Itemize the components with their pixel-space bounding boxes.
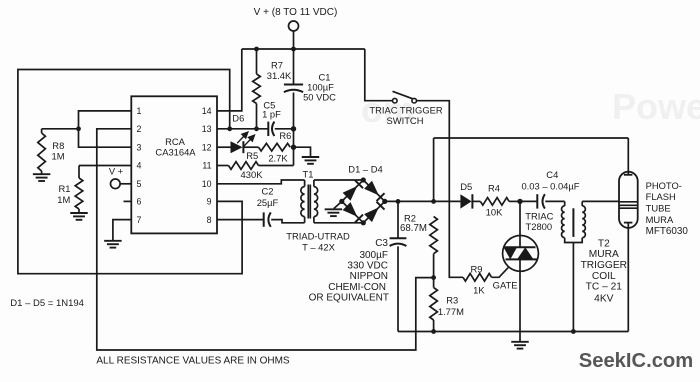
- wire bridge to triac row: [385, 200, 461, 202]
- node bridge right: [382, 199, 387, 204]
- resistor 430K: [229, 162, 259, 170]
- ground R1: [70, 212, 88, 214]
- wire pin8: [217, 219, 264, 221]
- svg-text:R3: R3: [446, 294, 458, 305]
- wire pin7: [113, 220, 131, 241]
- svg-text:11: 11: [202, 161, 211, 171]
- resistor R3: [433, 278, 435, 288]
- node bridge bottom: [361, 220, 366, 225]
- node bus-C1: [291, 47, 296, 52]
- svg-text:D5: D5: [460, 181, 472, 192]
- wire pin2 long loop: [97, 129, 434, 350]
- svg-text:D1 – D5 = 1N194: D1 – D5 = 1N194: [10, 298, 84, 309]
- diode D1: [343, 186, 358, 201]
- resistor R4: [480, 198, 509, 206]
- svg-text:R4: R4: [488, 183, 500, 194]
- bridge frame D1-D4: [342, 180, 385, 223]
- svg-text:R8: R8: [52, 140, 64, 151]
- svg-text:R1: R1: [59, 183, 71, 194]
- svg-text:TRIAC: TRIAC: [525, 211, 553, 222]
- svg-text:TRIAD-UTRAD: TRIAD-UTRAD: [286, 231, 350, 242]
- svg-text:13: 13: [202, 124, 212, 134]
- wire gate: [492, 268, 509, 278]
- svg-text:300µF: 300µF: [359, 250, 388, 261]
- svg-text:R9: R9: [471, 264, 483, 275]
- svg-text:T – 42X: T – 42X: [302, 241, 335, 252]
- svg-text:10: 10: [202, 179, 212, 189]
- node rail-R3: [431, 329, 436, 334]
- wire pin11: [217, 165, 229, 167]
- wire pin13 riser: [18, 70, 242, 274]
- svg-text:8: 8: [207, 215, 212, 225]
- node R2-R3: [431, 275, 436, 280]
- op-amp U1 RCA CA3164A: [131, 96, 217, 233]
- svg-text:50 VDC: 50 VDC: [303, 92, 336, 103]
- resistor R8: [41, 129, 43, 133]
- svg-text:1K: 1K: [473, 284, 485, 295]
- wire R2 riser: [433, 138, 435, 201]
- resistor R5: [259, 143, 291, 151]
- svg-text:7: 7: [137, 215, 142, 225]
- wire anode rail: [434, 137, 629, 139]
- terminal V+ pin5: [111, 179, 121, 189]
- resistor R2: [430, 217, 438, 254]
- ground R5: [302, 156, 320, 158]
- wire supply bus: [242, 48, 365, 50]
- wire R4 to triac node: [509, 200, 520, 202]
- transformer T2 secondary: [581, 201, 583, 206]
- svg-text:R7: R7: [271, 60, 283, 71]
- node pin13 riser: [227, 126, 232, 131]
- node R5 right: [291, 145, 296, 150]
- svg-text:25µF: 25µF: [257, 197, 279, 208]
- wire pin1: [79, 111, 132, 147]
- transformer T1 primary: [304, 180, 306, 187]
- ground triac: [511, 341, 529, 343]
- svg-text:2: 2: [137, 124, 142, 134]
- svg-text:430K: 430K: [241, 169, 264, 180]
- svg-text:R6: R6: [279, 130, 291, 141]
- svg-text:4KV: 4KV: [594, 294, 613, 305]
- wire switch to gate drop: [416, 101, 463, 278]
- capacitor C1: [293, 49, 295, 85]
- node bridge top: [361, 177, 366, 182]
- ground R8: [33, 173, 51, 175]
- transformer T1 secondary: [313, 180, 315, 187]
- wire pin4: [79, 165, 131, 167]
- node bridge left: [339, 199, 344, 204]
- transformer T1 core: [307, 185, 309, 219]
- svg-text:T1: T1: [303, 168, 314, 179]
- svg-text:MURA: MURA: [589, 249, 619, 260]
- svg-text:9: 9: [207, 197, 212, 207]
- wire C1-R5 link: [293, 129, 295, 166]
- wire pin10: [217, 180, 305, 184]
- svg-text:C2: C2: [262, 186, 274, 197]
- svg-text:0.03 – 0.04µF: 0.03 – 0.04µF: [521, 180, 579, 191]
- transformer T2 primary: [564, 201, 566, 206]
- svg-text:6: 6: [137, 197, 142, 207]
- capacitor C3: [397, 201, 399, 238]
- wire bus to switch: [365, 49, 393, 101]
- svg-text:R5: R5: [246, 150, 258, 161]
- node C3 top: [396, 199, 401, 204]
- node pin1-R8: [76, 126, 81, 131]
- svg-text:R2: R2: [404, 212, 416, 223]
- svg-text:SeekIC.com: SeekIC.com: [579, 350, 693, 372]
- svg-text:RCA: RCA: [165, 136, 186, 147]
- diode D2: [364, 181, 379, 196]
- capacitor C4: [520, 200, 537, 202]
- svg-text:1M: 1M: [57, 194, 70, 205]
- svg-text:10K: 10K: [486, 206, 503, 217]
- svg-text:1.77M: 1.77M: [438, 306, 464, 317]
- svg-text:1 pF: 1 pF: [262, 109, 281, 120]
- svg-text:CHEMI-CON: CHEMI-CON: [328, 282, 386, 293]
- svg-text:CA3164A: CA3164A: [155, 147, 196, 158]
- wire bridge left to ground: [334, 201, 342, 208]
- svg-text:330 VDC: 330 VDC: [347, 261, 388, 272]
- triac trigger switch: [393, 98, 398, 103]
- wire V+ terminal to bus: [293, 31, 295, 49]
- transformer T2 core: [572, 208, 574, 237]
- capacitor C5: [267, 122, 269, 136]
- svg-text:68.7M: 68.7M: [400, 223, 427, 234]
- wire R5 to ground: [294, 147, 311, 157]
- svg-text:1M: 1M: [51, 151, 64, 162]
- svg-text:14: 14: [202, 106, 212, 116]
- wire pin12: [217, 146, 231, 148]
- triac T2800: [503, 236, 539, 272]
- wire T2 to tube trigger: [582, 200, 619, 202]
- node R2 top: [431, 199, 436, 204]
- photoflash tube V1: [619, 172, 638, 228]
- svg-text:D1 – D4: D1 – D4: [348, 164, 382, 175]
- wire T1 to bridge bottom: [314, 222, 363, 224]
- node rail-T2: [571, 329, 576, 334]
- diode D6: [231, 141, 243, 153]
- svg-text:5: 5: [137, 179, 142, 189]
- wire R8 tee: [42, 128, 79, 130]
- svg-text:4: 4: [137, 161, 142, 171]
- svg-text:D6: D6: [232, 112, 244, 123]
- svg-text:2.7K: 2.7K: [268, 152, 288, 163]
- svg-text:TRIAC TRIGGER: TRIAC TRIGGER: [369, 105, 442, 116]
- svg-text:C4: C4: [546, 169, 558, 180]
- svg-text:OR EQUIVALENT: OR EQUIVALENT: [309, 293, 389, 304]
- svg-text:MFT6030: MFT6030: [646, 226, 689, 237]
- svg-text:V + (8 TO 11 VDC): V + (8 TO 11 VDC): [254, 7, 338, 18]
- svg-text:SWITCH: SWITCH: [387, 115, 424, 126]
- svg-text:Powe: Powe: [612, 86, 700, 127]
- svg-text:V +: V +: [109, 165, 124, 176]
- svg-text:3: 3: [137, 142, 142, 152]
- svg-text:T2: T2: [598, 238, 610, 249]
- diode D3: [343, 202, 358, 217]
- node R7 bottom: [254, 126, 259, 131]
- resistor R7: [256, 49, 258, 74]
- node bus-R7: [254, 47, 259, 52]
- node triac top: [517, 199, 522, 204]
- arrows D6: [237, 132, 254, 146]
- svg-text:NIPPON: NIPPON: [350, 271, 388, 282]
- resistor R9: [463, 274, 492, 282]
- V+ supply terminal: [289, 21, 299, 31]
- svg-text:MURA: MURA: [646, 214, 674, 225]
- svg-text:FLASH: FLASH: [646, 191, 676, 202]
- svg-text:TUBE: TUBE: [646, 203, 671, 214]
- ground bridge: [325, 208, 343, 210]
- svg-text:1: 1: [137, 106, 142, 116]
- wire pin14 to bus: [217, 49, 242, 111]
- diode D4: [364, 207, 379, 222]
- svg-text:12: 12: [202, 142, 212, 152]
- ground pin7: [104, 240, 122, 242]
- diode D5: [460, 194, 471, 208]
- svg-text:31.4K: 31.4K: [267, 70, 292, 81]
- node C5 right: [291, 126, 296, 131]
- svg-text:GATE: GATE: [493, 280, 518, 291]
- svg-text:C3: C3: [375, 238, 388, 249]
- svg-text:T2800: T2800: [526, 221, 553, 232]
- svg-text:TC – 21: TC – 21: [586, 282, 623, 293]
- svg-text:PHOTO-: PHOTO-: [646, 180, 682, 191]
- wire ground rail: [398, 331, 628, 333]
- wire 430K to link: [259, 165, 294, 167]
- wire T1 to bridge top: [314, 179, 363, 181]
- svg-text:ALL RESISTANCE VALUES ARE IN O: ALL RESISTANCE VALUES ARE IN OHMS: [96, 355, 290, 366]
- resistor R1: [78, 166, 80, 179]
- wire pin13 loop: [217, 128, 268, 130]
- wire T2 bottom drop: [572, 243, 574, 332]
- pin 6 stub: [124, 200, 132, 202]
- capacitor C2: [263, 212, 265, 226]
- svg-text:TRIGGER: TRIGGER: [581, 260, 627, 271]
